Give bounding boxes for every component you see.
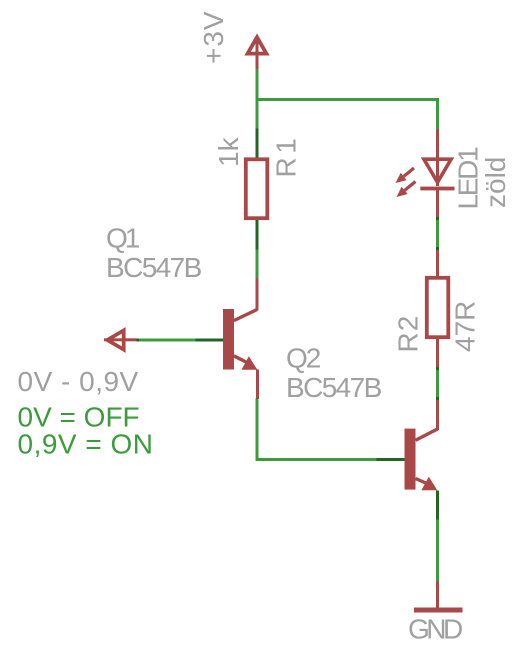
wire Q2 emitter to GND: [436, 520, 439, 582]
wire LED1 to R2: [436, 218, 439, 250]
wire R2 to Q2 collector: [436, 368, 439, 399]
power +3V supply symbol: [248, 37, 267, 69]
svg-text:47R: 47R: [450, 301, 481, 352]
transistor Q2: [405, 400, 440, 490]
pin dot input port: [137, 338, 140, 341]
wire +3V down to junction and R1: [256, 69, 259, 129]
transistor Q1: [223, 279, 259, 400]
wire horizontal top net: [256, 98, 440, 101]
svg-text:BC547B: BC547B: [106, 252, 202, 283]
Q2 emitter lead with arrow: [416, 479, 429, 485]
svg-text:1k: 1k: [213, 136, 244, 167]
pin Q1 base (dark green): [196, 338, 224, 341]
svg-text:R2: R2: [393, 315, 424, 353]
LED1 cathode bar: [420, 187, 454, 191]
svg-text:GND: GND: [408, 614, 462, 645]
pin dot Q1 emitter: [256, 399, 259, 402]
svg-text:Q2: Q2: [286, 343, 321, 374]
LED1 triangle: [424, 159, 451, 182]
Q1 base bar: [223, 309, 234, 370]
pin dot R2 top: [436, 247, 439, 250]
svg-text:BC547B: BC547B: [286, 372, 382, 403]
svg-text:0,9V = ON: 0,9V = ON: [18, 429, 154, 460]
input arrow symbol (port): [104, 330, 137, 349]
svg-text:+3V: +3V: [198, 10, 229, 64]
pin Q2 base (dark green): [377, 458, 405, 461]
wire down right branch to LED: [436, 98, 439, 129]
Q2 collector lead: [436, 400, 439, 430]
wire Q1 emitter down: [256, 399, 259, 461]
pin dot R2 bottom: [436, 367, 439, 370]
svg-text:R1: R1: [271, 135, 302, 178]
pin R1 top (dark green): [256, 129, 259, 159]
LED LED1: [396, 129, 455, 218]
svg-text:Q1: Q1: [106, 223, 140, 254]
Q2 base bar: [405, 429, 416, 490]
wire input to Q1 base (net): [139, 338, 196, 341]
LED1 cathode lead: [436, 190, 439, 218]
pin R1 bottom (dark green): [256, 220, 259, 250]
Q1 collector lead: [256, 279, 259, 311]
resistor R1: [246, 159, 267, 218]
LED1 light arrow 1: [404, 168, 414, 176]
pin Q2 emitter (dark green): [436, 491, 439, 520]
pin dot LED1 cathode: [436, 217, 439, 220]
svg-text:0V - 0,9V: 0V - 0,9V: [18, 366, 139, 397]
svg-text:zöld: zöld: [480, 157, 511, 208]
LED1 light arrow 2: [405, 182, 416, 191]
pin dot Q2 collector: [436, 397, 439, 400]
R2 bottom lead: [436, 339, 439, 368]
Q1 emitter lead with arrow: [234, 356, 247, 363]
LED1 anode lead: [436, 129, 439, 158]
ground GND symbol: [414, 581, 463, 613]
resistor R2: [427, 250, 449, 368]
R2 top lead: [436, 250, 439, 276]
wire R1 to Q1 collector: [256, 250, 259, 279]
svg-text:LED1: LED1: [453, 147, 484, 210]
wire across to Q2 base: [256, 458, 377, 461]
